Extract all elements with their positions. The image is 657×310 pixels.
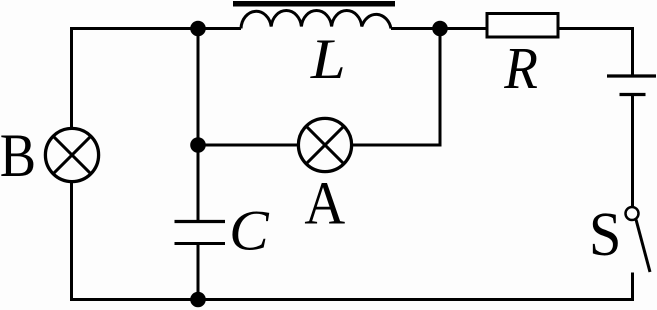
lamp A circle <box>298 118 351 171</box>
svg-text:C: C <box>229 198 270 262</box>
wire middle node to lamp A <box>198 144 298 147</box>
node: bottom junction dot <box>190 292 206 308</box>
inductor L core bar <box>233 1 395 7</box>
wire coil end to resistor <box>391 27 487 30</box>
lamp B circle <box>45 128 98 181</box>
node: middle junction dot <box>190 137 206 153</box>
lamp B cross <box>53 136 90 173</box>
wire left below lamp B + bottom wire + bottom-right stub <box>72 183 633 300</box>
svg-text:A: A <box>304 169 345 236</box>
svg-text:S: S <box>589 200 622 269</box>
capacitor C top plate <box>175 220 226 223</box>
wire capacitor to bottom node <box>197 245 200 300</box>
switch S pivot circle <box>626 207 639 220</box>
capacitor C bottom plate <box>175 242 226 245</box>
wire resistor to top-right corner down to battery <box>558 29 633 75</box>
wire middle vertical upper (node to capacitor) <box>197 29 200 221</box>
inductor L coil <box>241 11 391 29</box>
wire battery to switch <box>631 96 634 208</box>
wire lamp A right, up to top node <box>352 29 440 146</box>
battery long plate <box>607 74 656 77</box>
node: top-left junction dot <box>190 21 206 37</box>
switch S blade <box>636 220 650 273</box>
svg-text:L: L <box>310 26 346 90</box>
lamp A cross <box>306 126 343 163</box>
battery short plate <box>620 93 646 96</box>
svg-text:R: R <box>503 36 538 101</box>
svg-text:B: B <box>0 121 36 190</box>
resistor R body <box>487 14 558 38</box>
wire top-left + left branch down to lamp B <box>72 29 242 128</box>
node: top-right junction dot <box>432 21 448 37</box>
